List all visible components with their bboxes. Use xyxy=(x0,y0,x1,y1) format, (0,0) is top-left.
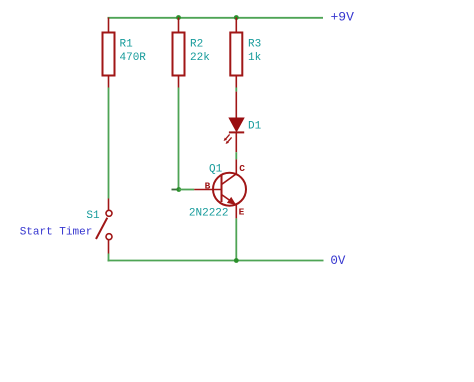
svg-text:R1: R1 xyxy=(120,39,134,51)
wire: R2 bottom to base junction xyxy=(178,88,180,190)
label D1 ref xyxy=(248,121,262,133)
svg-text:S1: S1 xyxy=(86,210,100,222)
svg-text:R3: R3 xyxy=(248,39,261,51)
label S1 ref xyxy=(86,210,100,222)
label R3 ref xyxy=(248,39,261,51)
svg-text:1k: 1k xyxy=(248,52,262,64)
wire: bottom 0V rail xyxy=(108,260,324,262)
junction: emitter / bottom rail xyxy=(234,258,239,263)
label R3 value 1k xyxy=(248,52,262,64)
LED D1 emission arrow 1 xyxy=(224,134,230,141)
wire: R1 bottom to switch S1 xyxy=(108,88,110,199)
label Start Timer xyxy=(20,227,93,239)
svg-text:B: B xyxy=(205,180,211,191)
svg-text:R2: R2 xyxy=(190,39,203,51)
resistor R1 xyxy=(103,18,115,88)
switch S1 xyxy=(96,199,112,254)
svg-text:D1: D1 xyxy=(248,121,262,133)
resistor R3 xyxy=(230,18,242,88)
svg-text:470R: 470R xyxy=(120,52,147,64)
label Q1 pin E xyxy=(239,206,245,217)
resistor R2 xyxy=(173,18,185,88)
label R2 value 22k xyxy=(190,52,210,64)
svg-text:0V: 0V xyxy=(330,254,346,268)
svg-text:C: C xyxy=(239,163,245,174)
label Q1 pin C xyxy=(239,163,245,174)
wire: R3 bottom to D1 anode xyxy=(235,88,237,92)
LED D1 emission arrow 2 xyxy=(226,137,232,144)
LED D1 xyxy=(229,92,244,153)
label Q1 ref xyxy=(209,164,223,176)
wire: Q1 emitter to bottom rail xyxy=(235,218,237,260)
svg-text:E: E xyxy=(239,206,245,217)
label Q1 pin B xyxy=(205,180,211,191)
wire: stub left of base junction xyxy=(172,189,178,191)
svg-text:Q1: Q1 xyxy=(209,164,223,176)
label R1 value 470R xyxy=(120,52,147,64)
svg-text:22k: 22k xyxy=(190,52,210,64)
label R1 ref xyxy=(120,39,134,51)
junction: top rail / R3 xyxy=(234,15,239,20)
svg-text:+9V: +9V xyxy=(331,10,355,25)
svg-text:Start Timer: Start Timer xyxy=(20,227,93,239)
wire: S1 bottom to rail corner xyxy=(108,254,110,262)
label +9V xyxy=(331,10,355,25)
svg-text:2N2222: 2N2222 xyxy=(189,208,229,220)
wire: base junction to Q1 base xyxy=(179,189,194,191)
wire: top +9V rail xyxy=(108,17,324,19)
junction: R2 / base wire xyxy=(176,187,181,192)
label R2 ref xyxy=(190,39,203,51)
wire: D1 cathode to Q1 collector xyxy=(235,152,237,159)
transistor Q1 xyxy=(194,159,246,218)
label 0V xyxy=(330,254,346,268)
junction: top rail / R2 xyxy=(176,15,181,20)
label Q1 value 2N2222 xyxy=(189,208,229,220)
